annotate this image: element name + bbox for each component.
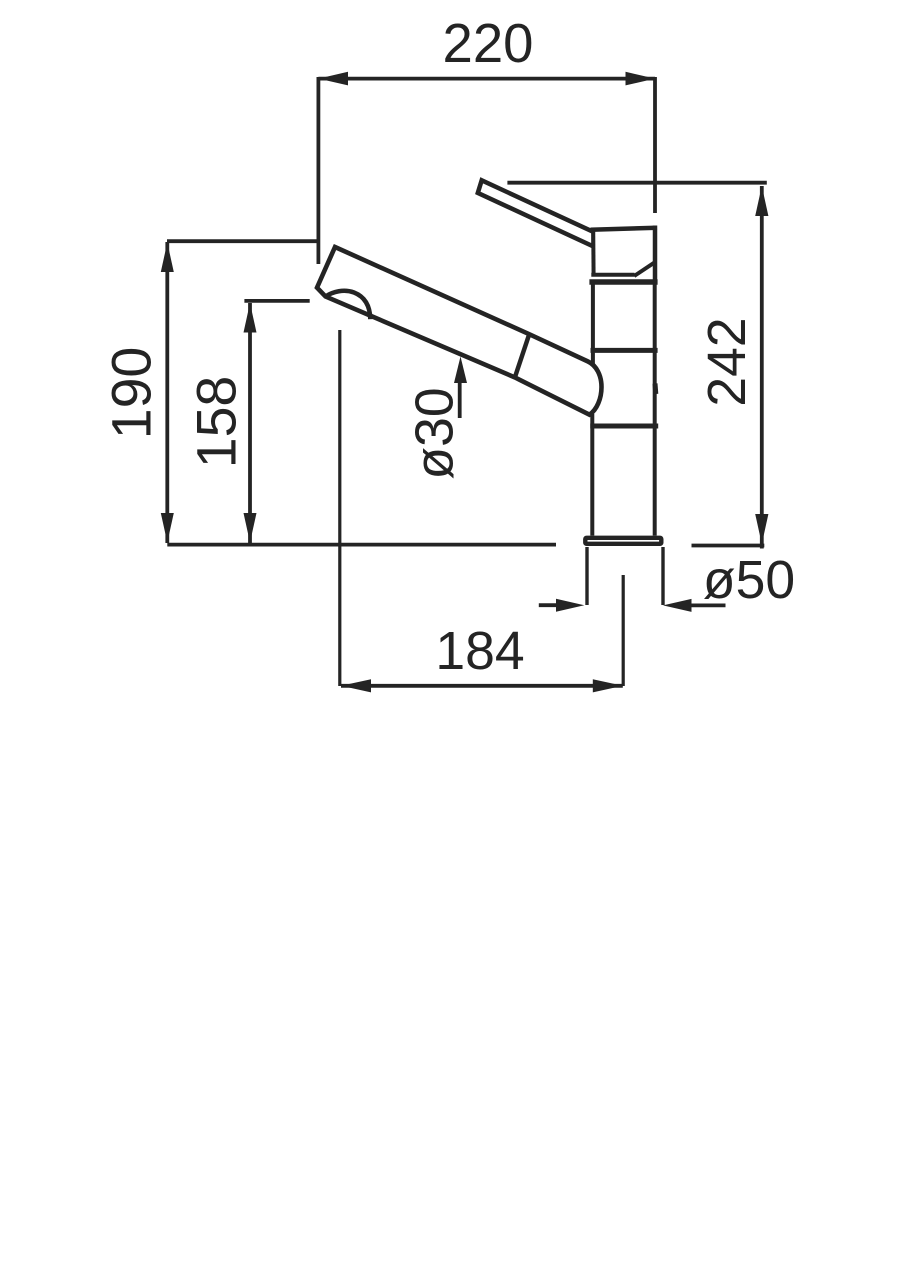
handle cap slanted notch (634, 263, 654, 276)
arrowhead 158 top (244, 303, 257, 333)
extension line top of 158 (244, 299, 309, 303)
arrowhead 184 right (593, 679, 623, 692)
svg-text:158: 158 (186, 376, 248, 469)
small tick on right edge (653, 384, 659, 395)
base flange (585, 538, 661, 544)
dimension line 184 (341, 684, 623, 688)
pull-out spout bar (317, 247, 602, 415)
svg-text:184: 184 (435, 622, 524, 681)
base centerline (622, 575, 625, 686)
spray head divider line (515, 334, 529, 377)
handle cap right edge (653, 226, 658, 284)
arrowhead 190 bottom (161, 513, 174, 543)
arrowhead 184 left (341, 679, 371, 692)
body division line upper (591, 348, 658, 353)
arrowhead 158 bottom (244, 513, 257, 543)
arrowhead 220 right (626, 72, 656, 86)
faucet body column left edge lower segment (590, 414, 594, 536)
extension line right of 220 (653, 77, 657, 213)
faucet body column left edge upper segment (591, 284, 595, 364)
body division line lower (590, 424, 658, 429)
leader arrow for diameter 30 (458, 383, 462, 418)
handle lever (478, 180, 594, 246)
dimension line 220 (318, 77, 655, 81)
counter reference line left segment (167, 543, 556, 547)
extension line from lever tip (top of 242) (507, 181, 766, 185)
arrowhead 242 bottom (755, 514, 768, 544)
extension line top of 190 (167, 239, 318, 243)
spout tip centerline (338, 330, 341, 686)
svg-text:190: 190 (101, 347, 163, 440)
arrowhead 242 top (755, 186, 768, 216)
counter reference line right segment (692, 544, 765, 548)
arrowhead 220 left (319, 72, 349, 86)
spout outlet lens (326, 291, 371, 319)
arrowhead 190 top (161, 243, 174, 273)
handle cap left edge (591, 228, 595, 277)
extension line left of 220 (316, 77, 320, 264)
dimension line 242 (760, 186, 764, 549)
shank left edge below counter (585, 547, 588, 605)
handle cap body (593, 228, 655, 280)
collar band below cap (589, 279, 657, 285)
leader arrow diameter 50 right (691, 604, 726, 608)
handle cap bottom edge (591, 273, 634, 277)
svg-text:242: 242 (698, 317, 757, 406)
svg-text:220: 220 (443, 13, 534, 74)
svg-text:ø30: ø30 (406, 387, 465, 479)
leader arrow diameter 50 left (539, 603, 557, 607)
shank right edge below counter (661, 547, 664, 605)
faucet body column right edge (653, 282, 657, 536)
dimension line 190 (165, 242, 169, 543)
handle cap top edge (591, 228, 658, 230)
dimension line 158 (248, 303, 252, 543)
svg-text:ø50: ø50 (703, 551, 795, 610)
